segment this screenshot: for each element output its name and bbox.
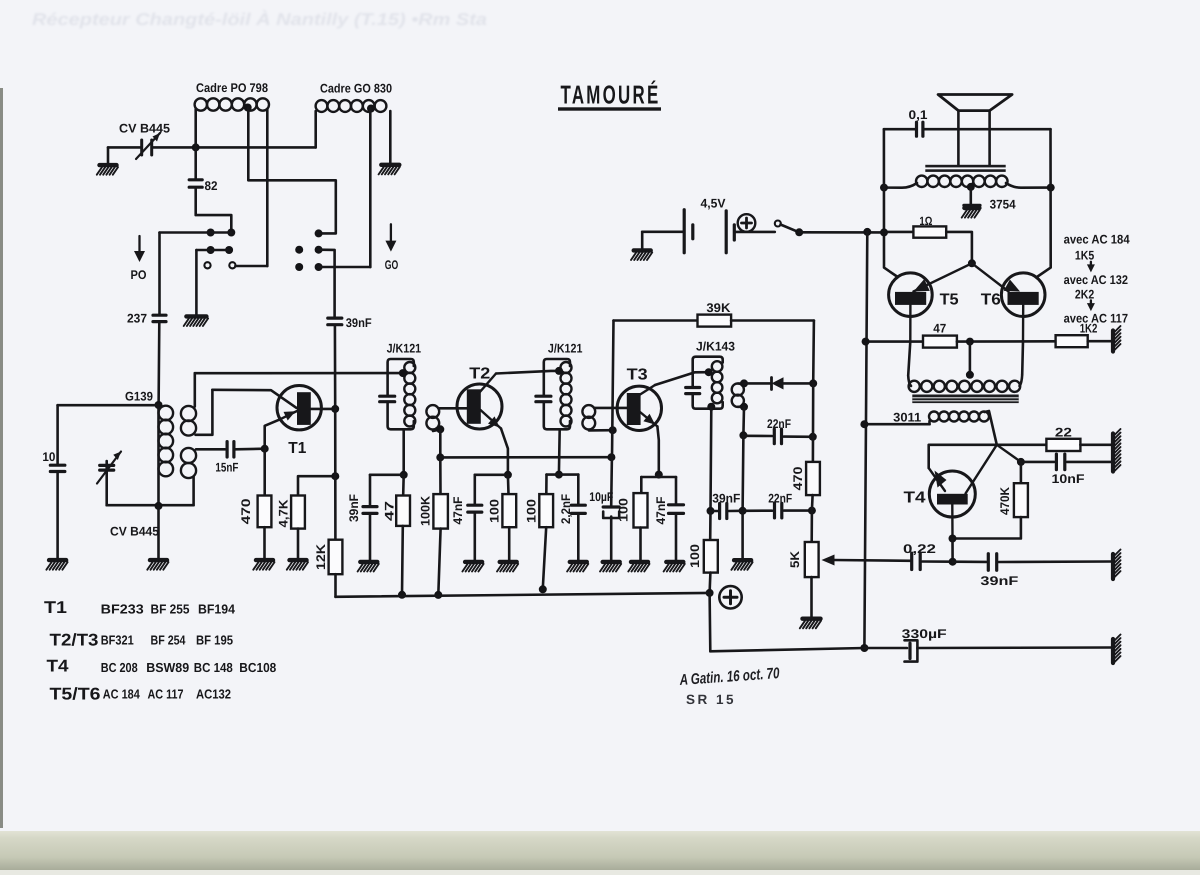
capacitor 39nF (detector)	[720, 504, 727, 519]
wire (T5 collector line)	[884, 129, 897, 276]
wire (47 top)	[402, 475, 405, 495]
ground wall (T4 output)	[1113, 429, 1121, 472]
wire (J/K121 no.2 bottom lead)	[558, 429, 561, 474]
svg-text:10: 10	[42, 450, 55, 464]
resistor 22	[1046, 439, 1080, 451]
ground (3754 tap)	[962, 205, 980, 217]
label GO	[385, 258, 399, 272]
ground (39nF IF1)	[358, 562, 379, 572]
paper left edge shadow	[0, 88, 3, 828]
wire (secondary bottom lead)	[738, 405, 744, 408]
label 100 (AF return)	[688, 544, 702, 568]
label 22nF no.1	[767, 417, 791, 431]
coil G139	[159, 405, 174, 506]
svg-text:T6: T6	[981, 292, 1001, 309]
svg-text:J/K121: J/K121	[548, 342, 583, 356]
svg-text:T1: T1	[288, 440, 306, 457]
table row T1	[44, 598, 236, 617]
node (supply / 47 bus)	[862, 338, 870, 346]
ground wall (bias)	[1113, 326, 1121, 352]
switch PO row2 contacts	[207, 246, 234, 254]
label 100K	[418, 496, 432, 526]
wire (GO row3 to GO tap riser)	[319, 266, 371, 269]
label 82	[205, 179, 218, 193]
transformer 3754 core	[925, 165, 1005, 172]
capacitor 22nF no.1	[774, 429, 781, 444]
wire (47 bus left)	[866, 340, 923, 343]
label 3754	[990, 198, 1016, 212]
wire (tank bottom bar)	[107, 504, 194, 507]
svg-text:2,2nF: 2,2nF	[559, 494, 573, 524]
node (3754 right)	[1047, 184, 1055, 192]
resistor 1 ohm	[884, 226, 972, 262]
wire (12K to bottom bus)	[334, 574, 337, 597]
wire (T4 emitter bracket)	[929, 445, 997, 468]
faded pencil annotation (illegible)	[32, 9, 487, 29]
capacitor (J/K143 internal)	[686, 388, 700, 394]
node (T3 coupling / 39K line)	[609, 426, 617, 434]
svg-text:BC108: BC108	[239, 660, 276, 675]
svg-text:10µF: 10µF	[589, 490, 613, 504]
wire (237 branch upper)	[158, 233, 161, 315]
svg-text:BC 208: BC 208	[101, 660, 138, 675]
wire (47 to bottom bus)	[401, 526, 404, 595]
switch (on/off)	[775, 221, 803, 237]
wire (22nF no.2 right lead)	[784, 509, 812, 512]
arrow (1K5 to 2K2)	[1087, 262, 1095, 273]
label avec AC 184	[1064, 233, 1130, 247]
capacitor 0,22	[912, 553, 921, 570]
node (J/K121 no.1 top)	[399, 369, 407, 377]
wire (PO coil left lead)	[194, 109, 197, 147]
resistor 470 (detector load)	[806, 462, 820, 495]
IF transformer J/K121 no.1 box	[388, 359, 414, 429]
node (47/bus)	[398, 591, 406, 599]
wire (470 det bottom lead)	[811, 495, 814, 511]
node (detector secondary top)	[740, 379, 748, 387]
svg-text:AC 117: AC 117	[148, 686, 184, 701]
svg-text:BF321: BF321	[101, 633, 134, 648]
node (T1 emitter / 15nF)	[261, 445, 269, 453]
coil (J/K121 no.1)	[404, 362, 415, 427]
wire (82 to PO switch row1 right)	[196, 189, 232, 232]
ground (10 capacitor)	[46, 560, 67, 570]
wire (T3 emitter bracket)	[641, 475, 676, 504]
label 39nF (GO coupling)	[346, 316, 372, 330]
svg-text:2K2: 2K2	[1075, 287, 1094, 301]
wire (G139 cold end to ground)	[157, 506, 160, 559]
wire (upper coupling top to feedback line)	[194, 373, 197, 406]
switch PO row1 contacts	[207, 229, 236, 237]
ground wall (0,22/39nF row)	[1113, 550, 1121, 580]
switch PO row3 contacts	[204, 262, 235, 268]
node (T4 base node)	[949, 535, 957, 543]
speaker	[938, 95, 1012, 166]
svg-text:22: 22	[1055, 425, 1072, 439]
node (supply branch)	[863, 228, 871, 236]
table row T4	[47, 657, 277, 676]
antenna coil Cadre GO 830	[316, 100, 387, 112]
wire (22nF no.1 right lead)	[784, 435, 813, 438]
node (detector secondary bottom)	[740, 403, 748, 411]
wire (470K bottom to T4 base)	[953, 517, 1021, 538]
transistor T3	[617, 385, 661, 475]
wire (PO coil right lead)	[266, 109, 269, 266]
wire (collector line down)	[334, 409, 337, 539]
coil (T3 base coupling)	[582, 405, 595, 429]
coil (3754 winding)	[916, 176, 1008, 187]
capacitor 47nF (T3)	[669, 505, 684, 514]
diode (detector)	[772, 377, 784, 389]
svg-text:G139: G139	[125, 390, 153, 404]
label 47nF (T2)	[451, 496, 465, 524]
switch GO row1 contact	[315, 229, 323, 237]
svg-text:3754: 3754	[990, 198, 1016, 212]
resistor 100 no.2	[539, 494, 553, 527]
wire (100 no.1 top)	[507, 475, 510, 494]
capacitor 10nF	[1056, 454, 1064, 470]
node (drive node)	[968, 259, 976, 267]
wire (top bar of input tank)	[58, 404, 159, 407]
arrow GO	[385, 224, 396, 251]
wire (812 line between nodes)	[812, 383, 815, 461]
label 4,7K	[276, 500, 290, 528]
label CV B445 (tuning)	[110, 525, 159, 539]
wire (39nF down to T1 collector node)	[334, 326, 337, 409]
node (J/K143 top)	[705, 368, 713, 376]
svg-text:237: 237	[127, 312, 147, 326]
wire (T3 coupling cold end)	[589, 429, 613, 432]
wire (PO row1 to 237 branch)	[160, 231, 211, 234]
node (100 no.2 / bus)	[539, 585, 547, 593]
coil (T1 base coupling upper)	[181, 406, 196, 436]
svg-text:12K: 12K	[314, 544, 328, 570]
svg-text:T3: T3	[627, 367, 648, 384]
ground (47nF T2)	[462, 562, 483, 572]
wire (10uF to ground)	[610, 517, 613, 561]
wire (lower coupling to 15nF)	[196, 448, 225, 451]
coil (T2 base coupling)	[426, 405, 439, 429]
svg-text:BF194: BF194	[198, 601, 236, 616]
wire (drive to T6)	[972, 263, 1009, 291]
plus symbol (battery)	[738, 214, 756, 232]
svg-text:PO: PO	[131, 268, 147, 282]
ground wall (minus rail)	[1113, 635, 1121, 664]
IF transformer J/K143 box	[693, 357, 723, 409]
ground (470)	[253, 560, 274, 570]
wire (0,22 right lead)	[922, 560, 952, 563]
svg-text:avec AC 184: avec AC 184	[1064, 233, 1130, 247]
node (100K/bus)	[434, 591, 442, 599]
wire (39nF IF1 to ground)	[369, 515, 372, 561]
wire (39K right lead)	[731, 321, 814, 384]
wire (10nF left lead)	[1021, 461, 1054, 464]
label 10uF	[589, 490, 613, 504]
svg-text:15nF: 15nF	[215, 461, 238, 475]
node (T3 emitter)	[655, 471, 663, 479]
wire (3754 left lead)	[884, 183, 917, 188]
svg-text:39nF: 39nF	[347, 494, 361, 522]
svg-text:39nF: 39nF	[712, 492, 740, 506]
transistor T1	[265, 386, 322, 449]
svg-text:470: 470	[239, 498, 253, 524]
ground (4,7K)	[287, 560, 308, 570]
node (J/K143 bottom)	[707, 403, 715, 411]
arrow PO	[134, 236, 145, 262]
label 1 ohm	[919, 214, 932, 228]
label 0,22	[903, 542, 936, 556]
wire (J/K121 no.1 bottom lead)	[402, 429, 405, 475]
svg-text:SR 15: SR 15	[686, 692, 736, 707]
wire (emitter node to 47nF)	[475, 475, 508, 504]
capacitor 237	[153, 315, 166, 321]
wire (AGC line)	[440, 456, 611, 459]
wire (antenna line left)	[108, 146, 140, 149]
wire (T2 base lead)	[439, 407, 467, 410]
svg-text:BSW89: BSW89	[146, 660, 189, 675]
wire (39K line vertical)	[612, 321, 614, 458]
svg-text:T2: T2	[469, 365, 490, 382]
signature A Gatin 16 oct 70	[678, 665, 780, 689]
wire (2,2nF to ground)	[577, 515, 580, 560]
svg-text:GO: GO	[385, 258, 399, 272]
wire (battery plus lead)	[734, 231, 775, 234]
resistor 39K	[698, 315, 732, 327]
label 330uF	[902, 627, 947, 641]
transistor T5	[889, 273, 933, 342]
svg-text:T2/T3: T2/T3	[50, 631, 99, 650]
wire (bus drop to minus rail)	[710, 593, 865, 651]
ground (100 no.1)	[497, 562, 518, 572]
svg-text:0,1: 0,1	[909, 108, 928, 122]
label 39nF (IF1)	[347, 494, 361, 522]
svg-text:J/K121: J/K121	[387, 342, 422, 356]
svg-text:4,5V: 4,5V	[701, 196, 727, 210]
resistor 12K	[329, 540, 343, 575]
wire (T2 collector to J/K121 no.2)	[496, 371, 559, 374]
svg-text:AC132: AC132	[196, 686, 231, 701]
svg-text:100: 100	[487, 499, 501, 523]
svg-text:BC 148: BC 148	[194, 660, 233, 675]
wire (PO tap to GO switch row1)	[248, 108, 335, 234]
svg-text:22nF: 22nF	[768, 492, 792, 506]
antenna coil Cadre PO 798	[195, 98, 269, 110]
node (T2 coupling/100K)	[436, 425, 444, 433]
wire (diode right lead)	[784, 382, 814, 385]
svg-text:47nF: 47nF	[654, 496, 668, 524]
wire (4,7K top)	[298, 476, 335, 495]
wire (battery minus lead)	[642, 231, 683, 234]
resistor 47 (bias)	[923, 336, 957, 348]
label 470 (T1)	[239, 498, 253, 524]
wire (PO row3 to PO coil right)	[235, 265, 267, 268]
variable capacitor CV B445 (top)	[136, 133, 160, 159]
wire (feedback line to J/K121 no.1)	[195, 372, 403, 375]
ground (5K)	[800, 619, 821, 629]
wire (470K top lead)	[997, 445, 1021, 483]
coil (3011 primary)	[908, 375, 1022, 392]
wire (GO coil left lead to main line)	[314, 111, 317, 147]
svg-text:100: 100	[524, 499, 538, 523]
resistor 47	[396, 496, 410, 526]
wire (upper coupling bottom riser)	[196, 390, 213, 435]
wire (det line to ground)	[741, 511, 744, 559]
wire (secondary top lead)	[738, 382, 744, 385]
capacitor 10uF (electrolytic)	[603, 507, 619, 518]
label 39nF (detector)	[712, 492, 740, 506]
svg-text:TAMOURÉ: TAMOURÉ	[561, 80, 661, 110]
label 39nF (output)	[980, 574, 1018, 588]
node (T1 collector)	[331, 405, 339, 413]
label J/K143	[696, 340, 735, 354]
capacitor 39nF (IF1)	[363, 507, 377, 514]
wire (39nF det right lead)	[729, 509, 743, 512]
label Cadre GO 830	[320, 82, 392, 96]
node G139 top	[155, 401, 163, 409]
label 100 no.1	[487, 499, 501, 523]
title TAMOURE	[558, 80, 661, 111]
capacitor 2,2nF	[571, 505, 585, 513]
svg-text:T1: T1	[44, 598, 67, 617]
svg-text:47: 47	[382, 501, 396, 521]
label Cadre PO 798	[196, 81, 268, 95]
wire (100 no.2 to bottom bus)	[543, 527, 546, 588]
wire (22nF no.2 left lead)	[743, 509, 772, 512]
wire (PO row2 to ground branch)	[196, 250, 210, 315]
label 1K5	[1075, 249, 1094, 263]
ground (antenna input)	[97, 147, 118, 174]
svg-text:CV B445: CV B445	[110, 525, 159, 539]
node (47 bus / center tap riser)	[966, 338, 974, 346]
coil (J/K121 no.2)	[561, 362, 572, 427]
wire (GO row2 to 39nF line)	[319, 250, 335, 317]
table row T5/T6	[50, 685, 232, 704]
node (PO coil left / main line)	[192, 143, 200, 151]
wire (237 to G139)	[157, 323, 160, 405]
transistor T6	[1001, 273, 1045, 342]
transistor T4	[929, 468, 976, 539]
wire (secondary bottom down)	[742, 407, 745, 436]
wire (5K wiper)	[822, 555, 912, 566]
wire (47 bus middle)	[957, 340, 1056, 343]
svg-text:47: 47	[933, 322, 946, 336]
ground (PO switch)	[184, 316, 208, 326]
capacitor (J/K121 no.2 internal)	[536, 396, 551, 402]
wire (supply rail vertical)	[864, 232, 867, 648]
wire (100 T3 to ground)	[639, 528, 642, 561]
svg-text:T5: T5	[940, 292, 959, 309]
wire (T4 base to 0,22 row)	[951, 539, 954, 562]
label 15nF	[215, 461, 238, 475]
wire (to 39nF branch)	[370, 475, 404, 506]
label 0,1	[909, 108, 928, 122]
label 470K	[998, 487, 1012, 515]
wire (T6 collector line)	[1038, 129, 1051, 276]
resistor 470 (T1 emitter)	[258, 496, 272, 528]
resistor 4,7K	[291, 496, 305, 529]
node (J/K121 no.2 bottom)	[555, 471, 563, 479]
wire (diode left lead)	[744, 382, 771, 385]
ground (100 T3)	[628, 562, 649, 572]
capacitor 82 (padder)	[189, 147, 202, 187]
node (22nF no.1 right)	[809, 433, 817, 441]
label T2	[469, 365, 490, 382]
label 470 (detector)	[791, 466, 805, 490]
label 2,2nF	[559, 494, 573, 524]
wire (T5 emitter to transformer)	[908, 342, 910, 376]
battery 4,5V	[684, 210, 734, 253]
capacitor 47nF (T2 emitter)	[468, 505, 482, 512]
svg-text:470: 470	[791, 466, 805, 490]
node (secondary / supply rail)	[860, 420, 868, 428]
wire (GO tap down to switch row3)	[369, 109, 372, 268]
wire (main tuning line)	[153, 146, 316, 149]
wire (3011 secondary right lead)	[985, 411, 997, 445]
wire (47nF T3 to ground)	[675, 515, 678, 560]
transformer 3011 core	[912, 395, 1018, 404]
label T6	[981, 292, 1001, 309]
label 39K	[706, 301, 730, 315]
wire (4,7K to ground)	[297, 529, 300, 559]
svg-text:T4: T4	[47, 657, 70, 676]
ground (detector filter)	[731, 560, 752, 570]
label 47	[382, 501, 396, 521]
wire (22nF no.1 left lead)	[743, 434, 772, 437]
node (3754 center tap)	[967, 183, 975, 191]
node (T4 feedback node)	[1017, 458, 1025, 466]
wire (T1 base lead)	[212, 390, 296, 408]
label 1K2	[1080, 322, 1098, 336]
svg-text:22nF: 22nF	[767, 417, 791, 431]
label T3	[627, 367, 648, 384]
label 10	[42, 450, 55, 464]
capacitor (J/K121 no.1 internal)	[380, 396, 395, 402]
capacitor 15nF	[227, 442, 234, 458]
svg-text:J/K143: J/K143	[696, 340, 735, 354]
label 5K	[788, 551, 802, 568]
svg-text:330µF: 330µF	[902, 627, 947, 641]
ground (GO coil)	[379, 165, 400, 175]
wire (bottom bus)	[336, 593, 710, 597]
svg-text:BF 254: BF 254	[151, 633, 187, 648]
svg-text:CV B445: CV B445	[119, 122, 170, 136]
svg-text:Cadre GO 830: Cadre GO 830	[320, 82, 392, 96]
wire (T6 emitter to transformer)	[1021, 341, 1024, 374]
label PO	[131, 268, 147, 282]
wire (39K left lead)	[614, 319, 698, 322]
svg-text:Récepteur Changté-löil À Nanti: Récepteur Changté-löil À Nantilly (T.15)…	[32, 9, 487, 29]
label 4,5V	[701, 196, 727, 210]
svg-text:avec AC 132: avec AC 132	[1064, 273, 1128, 287]
wire (22 to wall)	[1080, 443, 1111, 446]
node (GO coil tap)	[367, 105, 375, 113]
svg-text:1Ω: 1Ω	[919, 214, 932, 228]
wire (supply line)	[799, 231, 884, 234]
svg-text:AC 184: AC 184	[103, 686, 141, 701]
wire (J/K143 bottom to 39nF row)	[709, 407, 712, 511]
wire (470 to ground)	[263, 527, 266, 558]
node (39nF row middle)	[739, 507, 747, 515]
capacitor 22nF no.2	[775, 503, 782, 517]
svg-text:5K: 5K	[788, 551, 802, 568]
label 12K	[314, 544, 328, 570]
wire (10nF to wall)	[1067, 461, 1111, 464]
node (1 ohm / battery / T5 line)	[880, 228, 888, 236]
ground (47nF T3)	[664, 562, 685, 572]
wire (T3 base lead)	[595, 407, 627, 410]
arrow (2K2 to 1K2)	[1087, 300, 1095, 311]
svg-text:39nF: 39nF	[346, 316, 372, 330]
